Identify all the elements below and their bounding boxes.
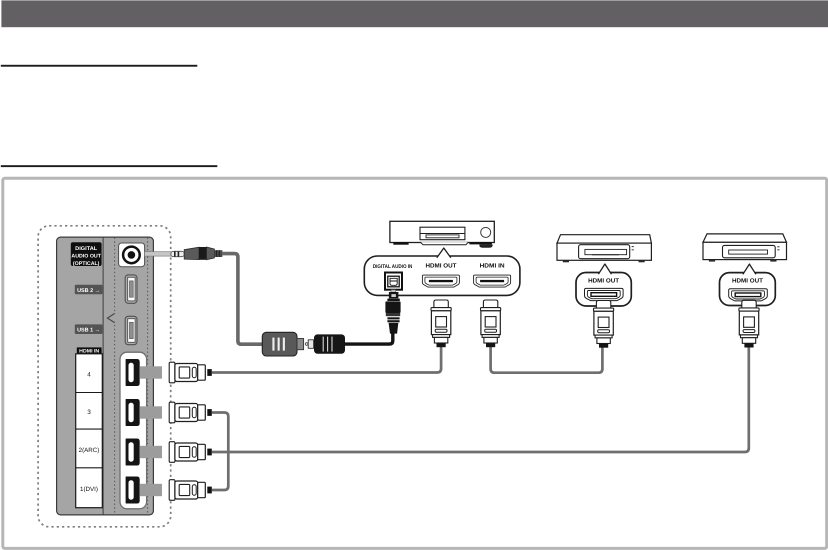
page header bar <box>1 0 828 27</box>
HDMI OUT port (player1) slot <box>591 293 617 297</box>
HDMI OUT port (player2) inner outline <box>732 291 765 299</box>
player2 front face <box>703 242 787 259</box>
player2 top face <box>703 234 787 242</box>
svg-text:HDMI OUT: HDMI OUT <box>588 278 619 285</box>
receiver callout notch <box>437 248 451 258</box>
diagram outer box <box>3 178 827 548</box>
TV side panel body <box>57 237 154 515</box>
HDMI port 2 plug body pill <box>192 447 196 457</box>
optical plug ridges <box>214 250 222 257</box>
optical port center <box>128 251 136 259</box>
receiver HDMI IN plug body <box>481 311 500 335</box>
HDMI port 1 plug cable boot <box>207 487 212 494</box>
receiver HDMI OUT plug body square <box>436 317 447 327</box>
player1 HDMI OUT plug lower flange <box>595 335 612 338</box>
heading underline 1 <box>1 65 198 67</box>
receiver tray inner <box>426 235 459 238</box>
USB 1 slot tongue <box>130 322 134 338</box>
optical in plug band <box>386 313 400 316</box>
player1 HDMI OUT plug black boot <box>599 343 608 347</box>
HDMI port 3 plug body pill <box>192 407 196 417</box>
optical adapter nub <box>297 339 304 350</box>
svg-text:DIGITAL: DIGITAL <box>75 246 98 252</box>
HDMI port 2 plug body square <box>179 446 190 457</box>
player1 tray <box>579 245 630 259</box>
player2 callout box <box>720 273 776 306</box>
optical in port outer <box>385 273 402 290</box>
HDMI port 3 plug cable boot <box>207 409 212 416</box>
HDMI port 4 plug shell ring <box>169 362 175 383</box>
receiver foot right <box>469 242 492 244</box>
player2 callout notch <box>743 264 756 274</box>
HDMI IN port (receiver) inner outline <box>476 277 508 285</box>
receiver tray outer <box>420 227 465 240</box>
USB 2 slot housing <box>125 275 137 303</box>
HDMI input numbers column <box>76 354 103 508</box>
TV rear dashed outline <box>38 226 171 527</box>
receiver HDMI IN plug lower flange <box>482 335 499 338</box>
receiver bottom recess <box>420 242 468 245</box>
receiver HDMI OUT plug connector neck <box>434 300 448 308</box>
receiver HDMI IN plug connector neck <box>483 300 497 308</box>
player2 HDMI OUT plug body pill <box>743 330 755 333</box>
HDMI OUT port (receiver) slot bar <box>429 280 453 282</box>
HDMI IN 1 receptacle <box>126 477 140 504</box>
player1 feet <box>563 260 569 262</box>
optical in plug neck <box>391 290 396 293</box>
receiver HDMI IN plug flange <box>481 308 501 311</box>
svg-text:HDMI OUT: HDMI OUT <box>732 278 763 285</box>
optical black cable run <box>345 330 393 344</box>
player2 buttons <box>777 246 779 248</box>
player2 HDMI OUT plug flange <box>739 308 759 311</box>
HDMI port 2 plug body <box>175 443 198 461</box>
HDMI cable port3 to port1 loop <box>212 413 229 491</box>
svg-text:3: 3 <box>87 409 91 416</box>
HDMI IN 4 slot <box>129 363 134 382</box>
svg-text:1(DVI): 1(DVI) <box>80 486 98 493</box>
HDMI port 1 plug body square <box>179 484 190 495</box>
HDMI ports housing <box>120 352 147 509</box>
HDMI OUT port (player2) slot <box>735 293 761 297</box>
heading underline 2 <box>1 165 218 167</box>
receiver HDMI OUT plug body pill <box>435 329 447 332</box>
optical plug body <box>184 247 199 259</box>
optical mini connector <box>305 343 308 346</box>
label chip HDMI IN <box>77 347 102 354</box>
HDMI port 4 plug end cap <box>198 365 206 380</box>
svg-text:USB 1 →: USB 1 → <box>77 328 100 334</box>
panel divider line <box>102 238 104 515</box>
HDMI port 2 plug tip <box>140 446 162 458</box>
receiver HDMI IN plug body square <box>485 317 496 327</box>
optical in plug taper <box>389 323 399 334</box>
svg-text:DIGITAL AUDIO IN: DIGITAL AUDIO IN <box>373 264 413 270</box>
label chip USB 1 <box>75 324 103 334</box>
HDMI port 4 plug cable boot <box>207 369 212 376</box>
optical plug black band <box>199 247 207 260</box>
optical port ring <box>123 247 140 264</box>
player1 HDMI OUT plug flange <box>594 308 614 311</box>
optical mini plug tip <box>171 251 184 256</box>
receiver HDMI OUT plug black boot <box>437 343 446 347</box>
HDMI port 1 plug tip <box>140 484 162 496</box>
optical in plug collar <box>387 299 399 301</box>
HDMI port 4 plug body <box>175 364 198 382</box>
receiver HDMI OUT plug lower flange <box>433 335 450 338</box>
HDMI OUT port (receiver) outer outline <box>422 275 459 287</box>
HDMI cable receiver HDMI IN to player1 HDMI OUT <box>491 347 603 373</box>
player2 HDMI OUT plug lower neck <box>742 338 755 344</box>
player1 HDMI OUT plug body pill <box>598 330 610 333</box>
receiver HDMI IN plug lower neck <box>484 337 497 343</box>
svg-text:USB 2 →: USB 2 → <box>77 288 100 294</box>
player2 HDMI OUT plug black boot <box>744 343 753 347</box>
HDMI OUT port (player2) outer outline <box>729 289 768 301</box>
player1 callout notch <box>598 264 611 274</box>
USB 2 slot window <box>128 277 135 301</box>
HDMI port 3 plug end cap <box>198 405 206 420</box>
receiver callout box <box>364 256 520 295</box>
HDMI port 3 plug body <box>175 404 198 422</box>
svg-text:AUDIO OUT: AUDIO OUT <box>71 253 101 259</box>
label chip USB 2 <box>75 285 103 295</box>
optical in plug rings <box>387 317 399 319</box>
panel dotted line left <box>114 238 116 515</box>
player1 callout box <box>576 273 631 307</box>
USB 1 slot housing <box>125 316 137 344</box>
HDMI port 3 plug body square <box>179 407 190 418</box>
HDMI port 4 plug body pill <box>192 367 196 377</box>
svg-text:4: 4 <box>87 372 91 379</box>
player2 tray <box>723 245 776 257</box>
optical cable run <box>222 254 263 345</box>
optical black plug <box>314 334 345 353</box>
HDMI cable port4 to receiver HDMI OUT <box>212 347 441 373</box>
player1 HDMI OUT plug body square <box>598 317 609 327</box>
receiver foot left <box>393 242 408 245</box>
player1 HDMI OUT plug connector neck <box>596 301 610 309</box>
optical adapter box <box>262 332 297 356</box>
svg-text:HDMI OUT: HDMI OUT <box>426 263 457 270</box>
USB 2 slot tongue <box>130 281 134 297</box>
receiver HDMI IN plug black boot <box>486 343 495 347</box>
HDMI port 1 plug shell ring <box>169 480 175 501</box>
HDMI port 2 plug shell ring <box>169 442 175 463</box>
HDMI port 3 plug shell ring <box>169 402 175 423</box>
HDMI IN 3 receptacle <box>126 399 140 426</box>
player2 HDMI OUT plug lower flange <box>741 335 758 338</box>
HDMI port 1 plug body <box>175 481 198 499</box>
optical stub cable <box>145 252 172 256</box>
receiver HDMI IN plug body pill <box>485 329 497 332</box>
player2 HDMI OUT plug connector neck <box>742 300 756 308</box>
label chip DIGITAL AUDIO OUT (OPTICAL) <box>71 242 102 266</box>
player1 buttons <box>632 246 634 248</box>
panel break chevron <box>113 312 117 324</box>
svg-text:2(ARC): 2(ARC) <box>79 447 100 454</box>
player2 feet <box>709 260 715 262</box>
USB 1 slot window <box>128 319 135 343</box>
HDMI IN 2 receptacle <box>126 439 140 466</box>
receiver HDMI OUT plug lower neck <box>434 337 447 343</box>
HDMI IN 2 slot <box>129 442 134 461</box>
HDMI port 1 plug body pill <box>192 485 196 495</box>
player2 HDMI OUT plug body square <box>744 317 755 327</box>
HDMI OUT port (receiver) inner outline <box>425 277 457 285</box>
HDMI port 2 plug end cap <box>198 444 206 459</box>
player1 top face <box>557 235 651 243</box>
svg-text:(OPTICAL): (OPTICAL) <box>73 261 100 267</box>
receiver HDMI OUT plug flange <box>431 308 451 311</box>
HDMI IN 3 slot <box>129 403 134 422</box>
HDMI port 3 plug tip <box>140 406 162 418</box>
optical in port shutter <box>390 278 397 285</box>
player1 HDMI OUT plug body <box>594 311 613 335</box>
optical plug taper <box>207 247 215 260</box>
receiver knob <box>481 227 491 237</box>
HDMI IN 1 slot <box>129 480 134 499</box>
HDMI port 4 plug tip <box>140 366 162 378</box>
player2 HDMI OUT plug body <box>739 311 758 335</box>
AV receiver body <box>390 221 494 242</box>
optical audio out port housing <box>119 243 145 267</box>
HDMI port 1 plug end cap <box>198 482 206 497</box>
player1 front face <box>557 243 651 260</box>
receiver HDMI OUT plug body <box>431 311 450 335</box>
svg-text:HDMI IN: HDMI IN <box>480 263 505 270</box>
HDMI IN port (receiver) slot bar <box>480 280 504 282</box>
panel dotted line right <box>147 238 149 515</box>
HDMI OUT port (player1) outer outline <box>585 288 624 300</box>
HDMI cable port2 to player2 HDMI OUT <box>212 347 749 452</box>
player1 HDMI OUT plug lower neck <box>597 338 610 344</box>
HDMI OUT port (player1) inner outline <box>587 291 620 299</box>
HDMI IN port (receiver) outer outline <box>474 275 511 287</box>
optical in plug body <box>385 301 400 313</box>
HDMI IN 4 receptacle <box>126 359 140 386</box>
optical in plug tip <box>389 292 399 298</box>
optical in port inner <box>388 276 399 287</box>
HDMI port 4 plug body square <box>179 367 190 378</box>
HDMI port 2 plug cable boot <box>207 449 212 456</box>
